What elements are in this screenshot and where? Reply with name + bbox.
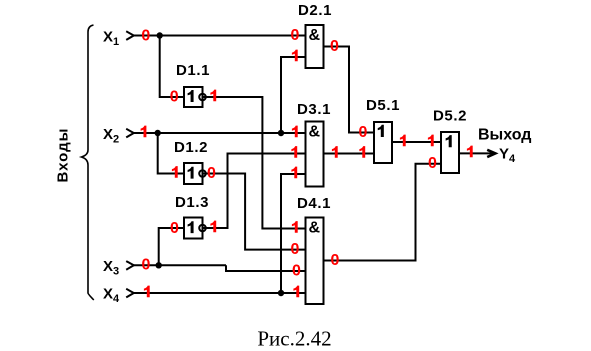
wire output arrow bbox=[459, 152, 493, 154]
brace for inputs bbox=[82, 25, 94, 300]
svg-text:&: & bbox=[309, 124, 321, 141]
value 1 at D3.1 input 1 bbox=[292, 126, 298, 138]
wire X3 up to D1.3 bbox=[159, 228, 184, 265]
value 1 at D3.1 input 2 bbox=[291, 146, 297, 158]
svg-text:0: 0 bbox=[291, 241, 300, 258]
wire X2 up to D2.1 input 2 bbox=[281, 57, 306, 133]
value 1 at D1.2 input bbox=[172, 166, 178, 178]
value 1 at D5.1 input 2 bbox=[359, 146, 365, 158]
svg-text:D1.1: D1.1 bbox=[176, 62, 210, 79]
svg-text:0: 0 bbox=[291, 27, 300, 44]
value 1 at D3.1 input 3 bbox=[291, 167, 297, 179]
OR gate D5.1 bbox=[374, 122, 392, 163]
wire D3.1 output to D5.1 input 2 bbox=[324, 153, 375, 155]
junction on X4 bbox=[278, 290, 284, 296]
value 1 at D5.2 output bbox=[467, 146, 473, 158]
svg-text:0: 0 bbox=[170, 89, 179, 106]
svg-text:0: 0 bbox=[331, 252, 340, 269]
svg-text:D4.1: D4.1 bbox=[297, 195, 331, 212]
svg-text:0: 0 bbox=[292, 262, 301, 279]
input X2 chevron bbox=[126, 129, 134, 138]
value 1 on X2 bbox=[141, 126, 147, 138]
svg-text:&: & bbox=[309, 219, 321, 236]
svg-text:0: 0 bbox=[141, 257, 150, 274]
junction on X2 at D2.1 tap bbox=[278, 130, 284, 136]
wire X4 row to D4.1 input 4 bbox=[133, 292, 306, 294]
AND gate D4.1 bbox=[306, 218, 324, 305]
value 1 at D5.2 input 1 bbox=[428, 135, 434, 147]
value 1 at D1.1 output bbox=[210, 90, 216, 102]
junction on X1 bbox=[157, 32, 163, 38]
wire D5.1 output to D5.2 input 1 bbox=[392, 141, 441, 143]
svg-text:0: 0 bbox=[141, 27, 150, 44]
input X3 chevron bbox=[126, 261, 134, 270]
svg-text:&: & bbox=[309, 27, 321, 44]
value 1 at D3.1 output bbox=[332, 146, 338, 158]
input X4 chevron bbox=[126, 289, 134, 298]
wire D4.1 output to D5.2 input 2 bbox=[324, 164, 442, 261]
svg-text:Рис.2.42: Рис.2.42 bbox=[257, 326, 331, 350]
wire X3 step to D4.1 input 3 bbox=[226, 265, 306, 271]
svg-text:D1.3: D1.3 bbox=[175, 194, 209, 211]
value 1 at D4.1 input 4 bbox=[293, 286, 299, 298]
svg-text:D3.1: D3.1 bbox=[297, 101, 331, 118]
svg-text:D2.1: D2.1 bbox=[298, 2, 332, 19]
svg-text:D5.2: D5.2 bbox=[433, 108, 467, 125]
wire D2.1 output to D5.1 input 1 bbox=[324, 47, 375, 133]
value 1 at D4.1 input 1 bbox=[292, 221, 298, 233]
OR gate D5.2 bbox=[441, 132, 459, 173]
svg-text:Выход: Выход bbox=[478, 127, 531, 144]
junction on X2 at D1.2 tap bbox=[155, 130, 161, 136]
input X1 chevron bbox=[126, 31, 134, 40]
wire X1 row to D2.1 input 1 bbox=[133, 35, 306, 37]
svg-text:D5.1: D5.1 bbox=[366, 97, 400, 114]
wire X3 row bbox=[133, 264, 226, 266]
inverter D1.2 bbox=[184, 163, 206, 184]
svg-text:D1.2: D1.2 bbox=[174, 139, 208, 156]
wire D1.3 output to D3.1 input 2 bbox=[203, 154, 306, 229]
value 1 at D1.3 output bbox=[210, 221, 216, 233]
wire X2 down to D1.2 bbox=[158, 133, 184, 174]
svg-text:0: 0 bbox=[428, 155, 437, 172]
svg-text:Входы: Входы bbox=[55, 128, 72, 183]
junction on X3 bbox=[156, 262, 162, 268]
wire X4 up to D3.1 input 3 bbox=[281, 174, 306, 293]
AND gate D3.1 bbox=[306, 122, 324, 187]
wire D1.2 output to D4.1 input 2 bbox=[203, 174, 306, 250]
wire D1.1 output to D4.1 input 1 bbox=[203, 97, 306, 229]
value 1 at D5.1 output bbox=[400, 135, 406, 147]
inverter D1.3 bbox=[184, 218, 206, 239]
wire X1 down to D1.1 bbox=[160, 36, 184, 98]
wire X2 row to D3.1 input 1 bbox=[133, 132, 306, 134]
AND gate D2.1 bbox=[306, 25, 324, 68]
svg-text:0: 0 bbox=[207, 165, 216, 182]
value 1 on X4 bbox=[144, 286, 150, 298]
value 1 at D2.1 input 2 bbox=[292, 50, 298, 62]
inverter D1.1 bbox=[184, 87, 206, 107]
svg-text:0: 0 bbox=[330, 38, 339, 55]
svg-text:0: 0 bbox=[170, 220, 179, 237]
svg-text:0: 0 bbox=[359, 124, 368, 141]
